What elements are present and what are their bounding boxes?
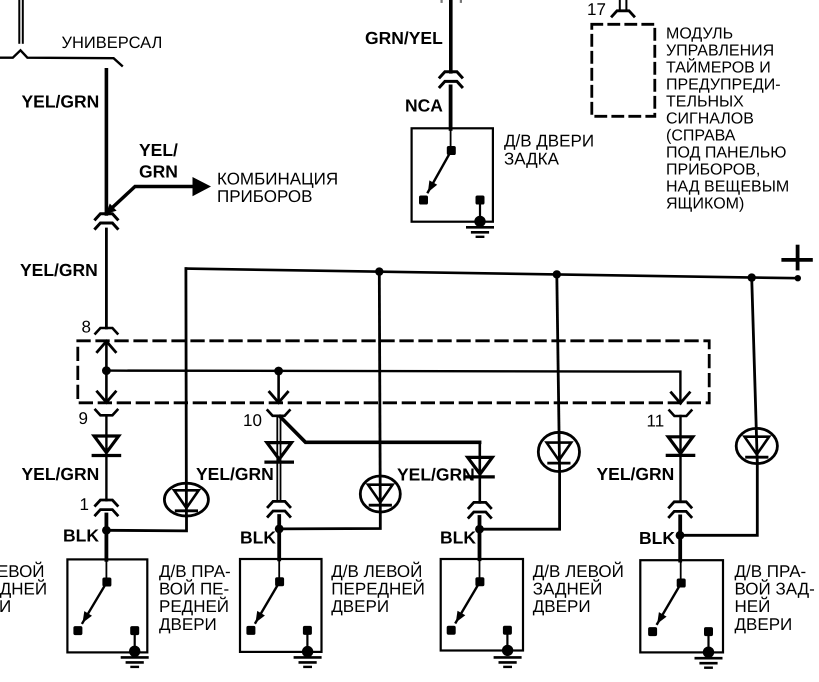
- wire YEL/GRN (main vertical from УНИВЕРСАЛ): [105, 70, 109, 214]
- svg-text:BLK: BLK: [639, 528, 675, 548]
- pin 11 connector half: [669, 411, 691, 417]
- wire bus to circled diode 4: [752, 278, 758, 463]
- svg-text:(СПРАВА: (СПРАВА: [666, 128, 736, 145]
- circled diode 1: [164, 483, 208, 516]
- wire BLK to circled diode 4: [680, 463, 757, 535]
- junction BLK (box 4): [676, 531, 685, 540]
- switch S2 ground-side contact: [303, 626, 312, 635]
- svg-text:10: 10: [243, 411, 262, 430]
- svg-text:NCA: NCA: [405, 95, 443, 115]
- wire contact to case ground S2: [306, 630, 308, 651]
- switch S3 pivot contact: [475, 577, 484, 586]
- wire contact to case ground S3: [506, 630, 508, 650]
- svg-text:ДВЕРИ: ДВЕРИ: [533, 597, 591, 616]
- switch S2 throw contact: [246, 626, 255, 635]
- ground terminal dot S2: [302, 646, 313, 657]
- svg-text:УПРАВЛЕНИЯ: УПРАВЛЕНИЯ: [666, 43, 774, 60]
- pin 10 arrow out of module: [277, 371, 280, 401]
- wire contact to case ground S4: [707, 632, 709, 652]
- wire continuation (pin 17): [619, 0, 621, 9]
- arrowhead to instrument cluster: [193, 177, 212, 196]
- svg-text:ДВЕРИ: ДВЕРИ: [735, 615, 793, 634]
- svg-text:ПЕРЕДНЕЙ: ПЕРЕДНЕЙ: [0, 579, 47, 599]
- wire YEL/GRN to module pin 8: [105, 229, 108, 328]
- УНИВЕРСАЛ variant brace: [0, 50, 122, 65]
- module boundary (dashed): [78, 341, 709, 403]
- pin 11 arrow out of module: [671, 393, 689, 404]
- svg-text:1: 1: [80, 495, 89, 514]
- ground (box 4): [696, 657, 721, 660]
- diode (column 3): [468, 457, 493, 474]
- svg-text:ЯЩИКОМ): ЯЩИКОМ): [666, 196, 744, 213]
- ground (box 3): [495, 656, 520, 659]
- ground (box 1): [122, 656, 147, 659]
- switch S5: tailgate door ajar (case): [412, 128, 493, 221]
- diode (column 2): [267, 443, 292, 460]
- svg-text:ЗАДНЕЙ: ЗАДНЕЙ: [533, 579, 603, 599]
- svg-text:GRN/YEL: GRN/YEL: [365, 28, 443, 48]
- wire pin 11 to connector (column 4): [679, 416, 681, 502]
- switch S3 arm arrowhead: [456, 611, 466, 623]
- inline connector (column 2): [268, 501, 290, 507]
- svg-text:ТАЙМЕРОВ И: ТАЙМЕРОВ И: [666, 58, 771, 77]
- svg-text:РЕДНЕЙ: РЕДНЕЙ: [159, 596, 229, 616]
- switch S5 arm: [428, 151, 451, 193]
- switch S4 arm: [657, 583, 681, 624]
- svg-text:ПЕРЕДНЕЙ: ПЕРЕДНЕЙ: [331, 579, 425, 599]
- svg-text:YEL/GRN: YEL/GRN: [22, 91, 100, 111]
- switch S2 arm arrowhead: [256, 611, 265, 623]
- junction bus / column 3: [748, 273, 756, 281]
- ground terminal dot S5: [474, 216, 485, 227]
- svg-text:BLK: BLK: [240, 528, 276, 548]
- inline connector (GRN/YEL wire): [440, 72, 462, 78]
- wire pin 9 to connector 1: [105, 415, 107, 500]
- switch S5 ground-side contact: [476, 196, 485, 205]
- wire BLK to circled diode 1: [106, 516, 186, 531]
- inline connector (column 3): [469, 502, 491, 508]
- switch S5 pivot contact: [447, 146, 456, 155]
- wire contact to case ground S5: [479, 200, 481, 221]
- svg-text:МОДУЛЬ: МОДУЛЬ: [666, 26, 733, 43]
- branch wire from pin 10 to diode 3: [280, 417, 480, 443]
- internal module wire: [106, 371, 680, 401]
- pin 10 connector half: [268, 410, 290, 416]
- svg-text:НАД ВЕЩЕВЫМ: НАД ВЕЩЕВЫМ: [666, 179, 789, 196]
- switch S3 ground-side contact: [503, 626, 512, 635]
- circled diode 2: [360, 476, 400, 512]
- pin 17 connector half: [612, 11, 634, 16]
- bus wire from battery +: [186, 269, 798, 279]
- circled diode 3: [538, 432, 579, 471]
- branch wire to instrument cluster: [107, 187, 196, 213]
- junction bus / column 1: [375, 267, 383, 275]
- junction BLK (box 3): [475, 525, 484, 534]
- switch S4 pivot contact: [677, 579, 686, 588]
- pin 9 arrow out of module: [105, 371, 108, 401]
- svg-text:YEL/GRN: YEL/GRN: [397, 464, 475, 484]
- pin 8 connector half: [95, 328, 117, 334]
- ground terminal dot S1: [129, 646, 140, 657]
- svg-text:8: 8: [82, 318, 91, 337]
- svg-text:BLK: BLK: [63, 526, 99, 546]
- svg-text:ПРЕДУПРЕДИ-: ПРЕДУПРЕДИ-: [666, 77, 781, 94]
- switch S2 pivot contact: [275, 577, 284, 586]
- ground terminal dot S3: [502, 645, 513, 656]
- wire continuation (top edge, GRN/YEL): [441, 0, 443, 2]
- wire into switch S1: [105, 559, 107, 578]
- wire GRN/YEL: [449, 0, 453, 72]
- wire into switch S3: [479, 559, 481, 578]
- wire bus to circled diode 1: [184, 269, 187, 516]
- battery + symbol: [783, 258, 811, 262]
- svg-text:YEL/GRN: YEL/GRN: [20, 260, 98, 280]
- junction node pin 10: [274, 367, 283, 376]
- ground (box 2): [295, 656, 320, 659]
- svg-text:УНИВЕРСАЛ: УНИВЕРСАЛ: [62, 34, 163, 52]
- diode (column 1): [94, 436, 119, 453]
- wire NCA to tailgate switch: [449, 86, 453, 128]
- switch S3 arm: [456, 582, 480, 623]
- svg-text:11: 11: [647, 412, 665, 431]
- svg-text:BLK: BLK: [440, 528, 476, 548]
- wire BLK stub into switch box 4: [678, 516, 682, 560]
- svg-text:YEL/GRN: YEL/GRN: [22, 464, 100, 484]
- junction node pin 8/9: [102, 366, 111, 375]
- module boundary (dashed, timer and warning module): [592, 24, 655, 116]
- svg-text:ДВЕРИ: ДВЕРИ: [0, 597, 11, 616]
- junction BLK (box 1): [102, 526, 111, 535]
- wire pin 10 to connector (double line): [276, 416, 278, 501]
- switch S1: right front door ajar (case): [67, 559, 147, 652]
- wire BLK to circled diode 2: [279, 513, 380, 529]
- svg-text:ПОД ПАНЕЛЬЮ: ПОД ПАНЕЛЬЮ: [666, 145, 786, 162]
- switch S2: left front door ajar (case): [240, 559, 322, 652]
- svg-text:КОМБИНАЦИЯ: КОМБИНАЦИЯ: [217, 170, 338, 189]
- switch S3: left rear door ajar (case): [441, 559, 523, 651]
- switch S1 arm arrowhead: [83, 611, 93, 623]
- wire into switch S5: [450, 128, 452, 147]
- svg-text:СИГНАЛОВ: СИГНАЛОВ: [666, 111, 754, 128]
- junction BLK (box 2): [275, 525, 284, 534]
- switch S4 arm arrowhead: [657, 612, 666, 624]
- circled diode 4: [736, 428, 777, 463]
- wire bus to circled diode 3: [557, 274, 560, 471]
- wire BLK stub into switch box 3: [478, 517, 482, 559]
- svg-text:9: 9: [79, 409, 88, 428]
- svg-text:ПРИБОРОВ,: ПРИБОРОВ,: [666, 162, 760, 179]
- svg-text:Д/В ЛЕВОЙ: Д/В ЛЕВОЙ: [0, 561, 45, 581]
- inline connector on YEL/GRN wire: [95, 214, 117, 220]
- wire bus to circled diode 2: [379, 272, 380, 512]
- inline connector (column 4): [669, 502, 691, 508]
- switch S4: right rear door ajar (case): [640, 560, 723, 652]
- svg-text:Д/В ПРА-: Д/В ПРА-: [735, 562, 807, 581]
- svg-text:YEL/GRN: YEL/GRN: [196, 464, 274, 484]
- wire continuation (off-page feed, УНИВЕРСАЛ): [18, 0, 20, 43]
- svg-text:ДВЕРИ: ДВЕРИ: [159, 615, 217, 634]
- switch S4 throw contact: [648, 627, 657, 636]
- switch S1 ground-side contact: [130, 626, 139, 635]
- wire contact to case ground S1: [134, 631, 136, 651]
- svg-text:ТЕЛЬНЫХ: ТЕЛЬНЫХ: [666, 94, 744, 111]
- wire into switch S2: [278, 559, 280, 578]
- svg-text:ВОЙ ПЕ-: ВОЙ ПЕ-: [159, 579, 229, 599]
- wire BLK stub into switch box 2: [277, 516, 281, 559]
- svg-text:ДВЕРИ: ДВЕРИ: [331, 597, 389, 616]
- switch S3 throw contact: [447, 626, 456, 635]
- svg-text:Д/В ЛЕВОЙ: Д/В ЛЕВОЙ: [331, 561, 422, 581]
- svg-text:YEL/GRN: YEL/GRN: [597, 464, 675, 484]
- svg-text:Д/В ПРА-: Д/В ПРА-: [159, 562, 231, 581]
- ground (tailgate switch): [467, 226, 492, 229]
- diode (column 4): [668, 437, 693, 454]
- svg-text:Д/В ДВЕРИ: Д/В ДВЕРИ: [504, 131, 594, 150]
- svg-text:YEL/: YEL/: [139, 140, 178, 160]
- switch S1 throw contact: [73, 626, 82, 635]
- arrowhead at branch junction: [106, 204, 117, 214]
- switch S2 arm: [256, 582, 280, 623]
- switch S1 arm: [83, 582, 107, 623]
- svg-text:ВОЙ ЗАД-: ВОЙ ЗАД-: [735, 579, 815, 599]
- pin 9 connector half: [95, 410, 117, 416]
- inline connector (column 1): [95, 500, 117, 506]
- ground terminal dot S4: [703, 647, 714, 658]
- junction bus / column 2: [553, 270, 561, 278]
- wire into switch S4: [680, 560, 682, 579]
- svg-text:НЕЙ: НЕЙ: [735, 596, 771, 616]
- svg-text:ПРИБОРОВ: ПРИБОРОВ: [217, 187, 313, 206]
- svg-text:17: 17: [587, 0, 606, 19]
- pin 8 arrow into module: [105, 343, 108, 371]
- wire BLK to circled diode 3: [480, 472, 560, 529]
- switch S5 arm arrowhead: [428, 180, 437, 192]
- wire BLK stub into switch box 1: [105, 515, 109, 560]
- svg-text:ЗАДКА: ЗАДКА: [504, 149, 560, 168]
- svg-text:GRN: GRN: [139, 162, 178, 182]
- bus end terminal: [795, 275, 801, 281]
- switch S5 throw contact: [419, 196, 428, 205]
- switch S1 pivot contact: [102, 578, 111, 587]
- svg-text:Д/В ЛЕВОЙ: Д/В ЛЕВОЙ: [533, 561, 624, 581]
- switch S4 ground-side contact: [704, 627, 713, 636]
